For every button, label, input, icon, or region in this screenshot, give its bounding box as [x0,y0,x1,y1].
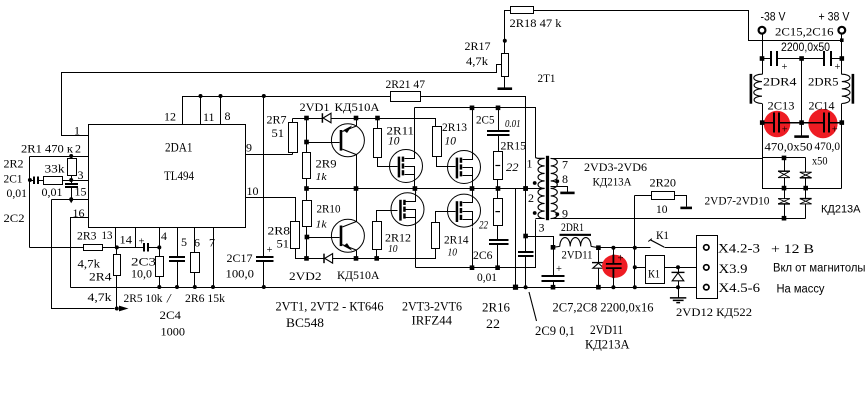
wire 2R8 bottom [296,249,307,259]
wire 2R9 vertical [306,119,308,153]
wire pin3 [63,180,89,182]
node pin7 bus [211,285,215,289]
svg-text:+: + [835,62,841,73]
resistor 2R18 47k [511,7,534,14]
node 2VT2 emitter bottom [354,256,359,261]
svg-text:ВС548: ВС548 [286,315,324,330]
node 2VT3 source [413,186,418,191]
node 2R6 bus [193,285,197,289]
node bridge left bottom [782,216,787,221]
node 2C9 bus [524,285,528,289]
node +38 cap row [840,56,845,61]
node pin11 [199,94,203,98]
resistor 2R7 51 [292,153,294,155]
node bus-2C9 [523,186,528,191]
node 515 bus [513,285,518,290]
svg-text:+ 12 В: + 12 В [771,241,814,256]
inductor 2DR1 winding [553,245,560,248]
diode 2VD11 KD213A [598,248,600,263]
svg-text:К1: К1 [656,228,669,242]
node 2C7 bus [551,285,556,290]
svg-text:+: + [832,125,838,136]
IC 2DA1 TL494 body [89,125,246,228]
svg-text:Х4.2-3: Х4.2-3 [718,241,760,256]
node base 2VT2 [305,235,310,240]
wire 2VT6 source [472,228,474,268]
node 2R5 bus [157,285,161,289]
connector X4 box [697,236,718,299]
svg-text:470,0x50: 470,0x50 [765,140,813,154]
resistor 2R2 33k [44,177,63,185]
inductor 2DR1 core bar [560,234,592,236]
svg-text:22: 22 [486,316,500,331]
terminal +38V [838,27,845,34]
svg-text:2: 2 [528,191,534,205]
wire pins 12 11 8 bus [183,97,391,125]
wire -38V stem [762,34,764,59]
svg-text:2DR5: 2DR5 [808,75,839,89]
svg-text:0,01: 0,01 [477,270,497,284]
node pin4-2C3 [157,245,161,249]
node 2C6 bottom [495,265,500,270]
capacitor 2C9 0,1 [518,252,534,256]
wire pin3 lead [536,218,545,220]
node 2C13 left [760,120,765,125]
inductor 2DR4 core [750,74,753,104]
highlight red circle 2C8 [602,255,628,278]
node 2DR1 left [551,245,556,250]
node pin13-2R3 [115,245,119,249]
node 2VT1 emitter [354,116,359,121]
wire base 2VT1 [307,142,340,144]
wire bottom bus [71,287,704,289]
gate bus 188 [307,188,526,190]
svg-text:2С7,2С8 2200,0x16: 2С7,2С8 2200,0x16 [553,301,654,315]
node 2R9 bottom [304,186,309,191]
wire pin16 [71,218,89,288]
wire relay feed vertical [634,196,636,288]
node 2VT4 drain [470,106,475,111]
node 2R17-2R18 [503,39,507,43]
diode 2VD12 KD522 [678,268,680,273]
svg-text:2R21 47: 2R21 47 [386,77,426,91]
svg-text:51: 51 [272,126,285,140]
svg-text:2VD3-2VD6: 2VD3-2VD6 [584,160,647,174]
terminal X4.5-6 [704,285,709,290]
resistor 2R15 22 [494,152,503,180]
polarity dot secondary lower [555,212,559,216]
svg-text:14: 14 [120,233,133,247]
svg-text:2R14: 2R14 [444,233,469,247]
svg-text:+: + [139,237,145,248]
node 2C14 right [840,120,845,125]
node pin15 [69,197,73,201]
mosfet 2VT5 IRFZ44 [391,193,424,226]
node bridge right mid [803,186,808,191]
svg-text:+: + [782,62,788,73]
capacitor 2C1 [30,180,35,182]
wire pin1 to 2R17 [62,65,502,136]
svg-text:К1: К1 [648,267,660,281]
highlight red circle 2C13 [764,111,790,137]
svg-text:2R9: 2R9 [316,157,337,171]
diode bridge left lower (2VD8) [784,189,786,199]
svg-text:0,01: 0,01 [42,185,63,199]
highlight red circle 2C14 [808,109,837,138]
wire 2VT2 collector up [356,189,358,222]
wire right rect vertical [841,123,843,189]
svg-text:TL494: TL494 [164,169,195,183]
wire power bus 108 [415,108,536,158]
wire 2VT6 drain [472,189,474,195]
svg-text:1000: 1000 [161,325,186,339]
svg-text:2DR4: 2DR4 [763,75,797,89]
svg-text:КД213А: КД213А [593,175,632,189]
svg-text:-38 V: -38 V [761,12,786,24]
resistor 2R10 1k [306,189,308,201]
svg-text:Х4.5-6: Х4.5-6 [719,280,761,295]
wire pin2 [30,156,89,158]
svg-text:2R5 10k: 2R5 10k [124,291,163,305]
wire pin15 [52,199,89,201]
node mid 470 row [799,120,804,125]
capacitor 2C2 [71,181,73,185]
svg-text:2C5: 2C5 [476,113,495,127]
svg-text:КД213А: КД213А [821,204,861,216]
wire 2VT3 source [414,183,416,189]
svg-text:3: 3 [539,221,545,235]
node 2R12 bottom [374,256,379,261]
resistor 2R8 51 [291,222,300,249]
svg-text:2R4: 2R4 [89,270,112,284]
svg-text:x50: x50 [812,154,828,168]
wire 515 vertical [515,189,517,288]
diode 2VD2 KD510A [323,254,325,264]
node -38 cap row [760,56,765,61]
capacitor 2C13 470x50 [762,122,775,124]
svg-text:Вкл от магнитолы: Вкл от магнитолы [773,263,866,275]
svg-text:+: + [556,264,562,275]
svg-text:8: 8 [562,172,568,186]
svg-text:10: 10 [388,243,398,255]
wire pin11 stub [200,97,202,125]
svg-text:1k: 1k [316,171,328,183]
transformer primary winding upper [535,157,544,160]
svg-text:2VD12 КД522: 2VD12 КД522 [676,305,752,319]
wire +38V stem [841,34,843,59]
svg-text:2VT1, 2VT2 - КТ646: 2VT1, 2VT2 - КТ646 [276,299,384,314]
svg-text:2R8: 2R8 [268,224,291,238]
resistor 2R14 10 [432,223,440,249]
polarity dot secondary upper [555,179,559,183]
diode bridge right lower (2VD10) [805,189,807,199]
wire 2VD2 line [306,238,308,259]
svg-text:2VT3-2VT6: 2VT3-2VT6 [402,299,462,314]
diode 2VD1 KD510A [321,113,323,123]
svg-text:12: 12 [164,110,176,124]
diode bridge left upper (2VD7) [784,158,786,172]
wire left vertical 2C1 net [29,157,31,248]
wire 2VT5 source [415,226,417,268]
svg-text:0.01: 0.01 [505,119,521,130]
svg-text:10: 10 [388,136,400,148]
svg-text:2VD11: 2VD11 [562,248,593,262]
wire pin2 lead [526,188,545,190]
inductor 2DR5 winding [842,74,850,103]
svg-text:2DA1: 2DA1 [165,141,193,155]
polarity dot primary lower [533,211,537,215]
wire 2R18 right to +38V [534,11,842,41]
svg-text:2R15: 2R15 [501,139,527,153]
node pin2 tap [523,186,528,191]
svg-text:2R2: 2R2 [4,157,24,171]
diode bridge right upper (2VD9) [805,158,807,173]
transformer 2T1 core [546,156,549,220]
capacitor 2C8 2200x16 [613,248,615,264]
terminal X3.9 [704,265,709,270]
wire base 2VT2 [307,237,340,239]
svg-text:2VD2: 2VD2 [289,269,322,283]
wire pin8 lead to ground [551,187,568,193]
wire 2VT1 emitter up [356,119,358,127]
node bridge left mid [782,186,787,191]
svg-text:2R20: 2R20 [650,176,677,190]
node pin3 [69,178,73,182]
wire 2VT5 drain [414,189,417,193]
node +38 junction [840,38,844,42]
transformer primary winding lower [538,188,545,218]
inductor 2DR4 winding [754,74,762,103]
node 2VD2 left [304,256,309,261]
svg-text:470,0: 470,0 [815,139,841,153]
svg-text:2R17: 2R17 [465,39,491,53]
svg-text:Х3.9: Х3.9 [719,261,748,276]
svg-text:2R16: 2R16 [482,300,510,315]
resistor 2R16 22 [497,189,499,199]
svg-text:2C17: 2C17 [227,251,253,265]
svg-text:51: 51 [277,237,290,251]
svg-text:11: 11 [203,110,215,124]
node 2VT4 source [470,186,475,191]
svg-text:10: 10 [448,247,458,259]
capacitor 2C17 100,0 [263,97,265,258]
earth ground under 2VD12 [678,288,680,298]
polarity dot primary upper [533,181,537,185]
svg-text:2: 2 [75,142,81,156]
svg-text:4,7k: 4,7k [88,290,112,304]
svg-text:КД510А: КД510А [335,100,380,114]
svg-text:7: 7 [209,236,215,250]
svg-text:2С14: 2С14 [809,99,835,113]
node 2DR1 right [596,245,601,250]
wire 2VT2 emitter down [356,251,358,259]
svg-text:8: 8 [225,109,231,123]
svg-text:2C6: 2C6 [473,248,493,262]
svg-text:100,0: 100,0 [226,267,255,281]
wire 2VT4 drain [472,108,474,151]
capacitor 2C15 [763,58,771,60]
svg-text:2C1: 2C1 [4,172,23,186]
svg-text:4: 4 [161,229,167,243]
svg-text:4,7k: 4,7k [78,257,101,271]
svg-text:2VD7-2VD10: 2VD7-2VD10 [705,194,770,208]
resistor 2R9 1k [303,153,311,179]
node relay top [633,246,637,250]
svg-text:22: 22 [506,162,519,174]
wire 2R17 ground [504,77,506,89]
svg-text:2C2: 2C2 [4,211,25,225]
svg-text:5: 5 [181,235,187,249]
wire pin7 lead [551,158,763,160]
wire pin7 stub [213,228,215,288]
capacitor 2C6 0,01 [489,240,508,244]
node 2VD12 bus [676,285,680,289]
svg-text:33k: 33k [45,162,65,176]
resistor 2R12 10 [373,222,382,250]
wire 2C9 net to 2DR1 [526,237,554,248]
resistor 2R1 470k [71,157,73,159]
svg-text:2Т1: 2Т1 [538,71,556,85]
resistor 2R20 10 [635,195,652,197]
inductor 2DR5 core [852,74,855,104]
capacitor 2C14 470x50 [802,122,825,124]
wire 2VT3 drain vertical [414,108,416,150]
svg-text:2C4: 2C4 [160,308,182,322]
svg-text:2200,0x50: 2200,0x50 [781,42,830,54]
svg-text:+: + [782,125,788,136]
svg-text:+: + [618,254,624,265]
leader line 2C9 label [529,292,537,321]
resistor 2R13 10 [433,127,442,157]
switch K1 contact [650,240,664,247]
node 2C8 bus [611,285,615,289]
svg-text:КД510А: КД510А [337,268,380,282]
resistor 2R17 4,7k [502,54,509,77]
svg-text:+: + [267,245,273,256]
node 2C8 top [611,246,615,250]
svg-text:2С13: 2С13 [768,99,795,113]
node 2C1 left [28,178,32,182]
svg-text:13: 13 [102,228,113,242]
wire pin8 stub [220,97,222,125]
node bridge left top [782,156,787,161]
capacitor 2C4 1000 with pin5 stub [177,228,179,257]
svg-text:2R6 15k: 2R6 15k [185,291,225,305]
wire output node [599,247,651,249]
node wiper [115,307,119,311]
node 2R9 top [304,116,309,121]
svg-text:2R3: 2R3 [77,229,97,243]
mosfet 2VT3 IRFZ44 [390,150,423,183]
resistor 2R21 47 [391,92,421,102]
svg-text:9: 9 [562,207,568,221]
mosfet 2VT6 IRFZ44 [448,194,481,227]
svg-text:1k: 1k [316,219,328,231]
svg-text:3: 3 [78,168,84,182]
node relay coil [633,265,637,269]
mosfet 2VT4 IRFZ44 [448,151,481,184]
capacitor 2C7 2200x16 [553,248,555,276]
wire 2VD1 line [293,118,323,120]
wire pin15 vertical to 2R5 wiper [52,200,115,309]
svg-text:1: 1 [527,157,533,171]
node 2R11 top [375,116,380,121]
node 2C17 bus [262,285,266,289]
svg-text:22: 22 [479,220,488,232]
wire 2R21 right to 2C9 net [421,97,526,253]
wire pin9 lead [551,218,806,220]
wire 2VT1 collector down [356,155,358,189]
svg-text:4,7k: 4,7k [466,54,488,68]
node mid cap row [799,56,804,61]
node 2R15 bottom [496,186,501,191]
svg-text:2R1 470 к: 2R1 470 к [21,142,73,156]
transistor 2VT1 KT646 [331,124,364,157]
svg-text:10: 10 [656,202,668,216]
svg-text:2VD1: 2VD1 [300,100,330,114]
wire rect top row [763,157,806,159]
capacitor 2C16 [802,58,825,60]
wiper arrow [119,306,129,312]
capacitor 2C3 10,0 [144,243,148,251]
wire pin14 stub [135,228,137,248]
svg-text:IRFZ44: IRFZ44 [412,313,453,328]
resistor 2R4 4,7k [116,248,118,255]
svg-text:10: 10 [247,184,259,198]
resistor 2R11 10 [374,129,382,158]
svg-text:7: 7 [562,158,568,172]
svg-text:2С9 0,1: 2С9 0,1 [535,323,575,338]
wire pin13 stub [115,228,117,248]
relay K1 coil [635,267,646,269]
wire 2VT4 source [472,184,474,189]
svg-text:+ 38 V: + 38 V [819,12,850,24]
node 2VD12 top [676,265,680,269]
svg-text:2R10: 2R10 [317,202,341,216]
wire pin10 [246,198,296,222]
wire mid rail to ground [801,59,803,137]
node pin8 [219,94,223,98]
transformer secondary winding lower [551,188,558,218]
transformer secondary winding upper [551,158,558,188]
node relay bus [633,285,637,289]
svg-text:2R7: 2R7 [267,113,287,127]
wire 2R3 row [30,247,84,249]
capacitor 2C5 0.01 [498,108,500,132]
svg-text:10,0: 10,0 [131,267,152,281]
node 2C4 bus [175,285,179,289]
node base 2VT1 [304,140,309,145]
terminal -38V [759,27,766,34]
node 2VD11 bus [596,285,601,290]
svg-text:2R13: 2R13 [442,120,467,134]
node 2VT6 source line [470,265,475,270]
svg-text:2VD11: 2VD11 [590,322,623,337]
svg-text:2DR1: 2DR1 [561,220,584,234]
terminal X4.2-3 [704,245,709,250]
svg-text:2С15,2С16: 2С15,2С16 [775,25,834,39]
resistor 2R6 15k with pin6 stub [194,228,196,253]
wire source line 267.7 [416,220,536,268]
svg-text:На массу: На массу [777,284,825,296]
node 2VT1-2VT2 [354,186,359,191]
svg-text:2R18 47 k: 2R18 47 k [510,16,562,30]
resistor 2R5 10k with pin4 stub [159,228,161,257]
svg-text:0,01: 0,01 [7,186,28,200]
node 2C5 top [496,106,501,111]
wire pin9 [246,154,293,156]
svg-text:9: 9 [246,141,252,155]
